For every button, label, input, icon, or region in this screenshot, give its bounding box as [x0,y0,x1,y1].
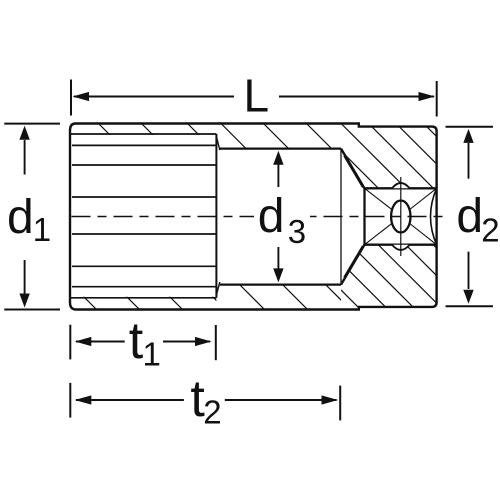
dimension t1 line right segment [163,341,210,343]
dimension t2 arrow left [75,395,92,404]
dimension L extension line right [436,81,438,117]
svg-text:3: 3 [288,213,306,250]
dimension L arrow left [73,92,90,101]
hatching left bottom chamfer band [83,296,227,311]
funnel top edge [341,149,365,189]
dimension t2 arrow right [322,395,339,404]
dimension t1 arrow right [195,337,212,346]
dimension d1 tick top [4,123,60,125]
dimension d1 arrow up [24,140,26,175]
svg-text:L: L [244,70,270,122]
svg-text:1: 1 [143,336,161,373]
dimension d2 tick bottom [446,305,494,307]
dimension t2 extension line left [69,383,71,418]
bore d3 bottom line [220,284,341,286]
square drive recess top edge [365,187,437,189]
dimension L extension line left [70,80,72,116]
main horizontal centerline [72,216,443,218]
dimension d3 arrow down [277,247,279,269]
pin hole ellipse [391,201,410,233]
cross hole arc bump top [392,183,410,188]
hatching middle bottom band [238,283,352,311]
dimension t2 extension line right [339,386,341,421]
taper connector bottom [216,282,219,295]
dimension L arrow right [419,92,436,101]
chamfer inner line bottom [71,297,217,299]
label d3 background [254,197,310,246]
dimension L line left segment [74,96,234,98]
chamfer inner line top [71,133,217,135]
hatching drive-end bottom region [294,243,500,313]
bore d3 end wall [340,149,342,285]
square drive recess bottom edge [365,244,437,246]
hatching drive-end top region [284,121,492,191]
svg-text:2: 2 [203,393,221,430]
svg-text:d: d [456,190,483,243]
step vertical at end of 12-point section [215,134,217,298]
square recess corner diagonals [365,188,437,244]
svg-text:1: 1 [33,211,51,248]
dimension d2 tick top [446,126,494,128]
svg-text:t: t [129,312,144,370]
square recess far wall concave arc [431,188,437,244]
funnel inner line bottom [344,246,363,278]
square drive recess left edge [363,188,365,244]
dimension t1 line left segment [76,341,125,343]
hatching middle top band [220,122,334,150]
spline lines of 12-point end [72,145,216,286]
socket body outer outline [70,124,437,310]
vertical centerline of drive square [400,177,402,256]
dimension t1 extension line left [69,325,71,360]
dimension d2 arrow down [468,252,470,289]
dimension t1 arrow left [75,337,92,346]
hatching left top chamfer band [96,121,200,136]
dimension d1 arrow down [24,260,26,294]
dimension t1 extension line right [215,325,217,360]
dimension d3 arrow up [277,163,279,187]
dimension d1 tick bottom [4,309,60,311]
dimension t2 line left segment [76,399,184,401]
svg-text:d: d [258,190,285,243]
dimension L line right segment [279,96,434,98]
bore d3 top line [220,148,341,150]
svg-text:d: d [7,191,34,244]
dimension t2 line right segment [225,399,337,401]
funnel bottom edge [341,245,365,285]
cross hole arc bump bottom [392,245,410,250]
svg-text:2: 2 [481,212,499,249]
funnel inner line top [344,156,363,188]
dimension d2 arrow up [468,143,470,179]
taper connector top [216,137,219,151]
